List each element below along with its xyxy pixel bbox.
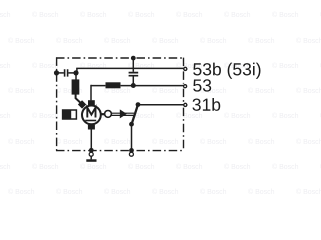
mechanical link double line [111, 113, 134, 115]
wire connector to ground symbol [90, 156, 92, 159]
svg-text:© Bosch: © Bosch [200, 138, 227, 146]
svg-text:© Bosch: © Bosch [8, 188, 35, 196]
node junction on 53 line [131, 83, 136, 88]
terminal 53 [184, 85, 187, 88]
svg-text:© Bosch: © Bosch [248, 87, 275, 95]
wire 53 line from corner to terminal [91, 85, 184, 87]
svg-text:© Bosch: © Bosch [56, 138, 83, 146]
thermal breaker (half-filled box) [63, 110, 77, 119]
svg-text:© Bosch: © Bosch [0, 112, 11, 120]
node switch ground on bottom border [129, 148, 134, 153]
node motor ground on bottom border [89, 148, 94, 153]
connector circle below border (motor ground) [89, 152, 93, 156]
brush bottom [88, 125, 95, 130]
wire motor to ground [90, 130, 92, 153]
svg-text:© Bosch: © Bosch [176, 163, 203, 171]
node on top border for capacitor C2 [131, 56, 136, 61]
svg-text:© Bosch: © Bosch [80, 11, 107, 19]
motor M1 [82, 106, 101, 125]
wire corner down to top brush [90, 85, 92, 101]
svg-text:© Bosch: © Bosch [32, 112, 59, 120]
svg-text:© Bosch: © Bosch [272, 163, 299, 171]
svg-text:© Bosch: © Bosch [296, 138, 321, 146]
svg-text:© Bosch: © Bosch [56, 37, 83, 45]
wire node A jog up to 53b line [76, 68, 78, 73]
svg-text:© Bosch: © Bosch [104, 37, 131, 45]
node case junction on left border [54, 70, 59, 75]
capacitor C1 (series, suppression) [65, 69, 68, 76]
label 31b [192, 98, 220, 111]
svg-text:© Bosch: © Bosch [0, 62, 11, 70]
connector circle below border (switch) [129, 152, 133, 156]
svg-text:© Bosch: © Bosch [32, 11, 59, 19]
actuating arrow [120, 109, 127, 118]
enclosure border top [56, 57, 184, 59]
svg-text:© Bosch: © Bosch [200, 87, 227, 95]
motor M1 underline [85, 120, 96, 122]
enclosure border left [56, 57, 58, 150]
svg-text:© Bosch: © Bosch [32, 163, 59, 171]
wire capacitor C2 to 53 line [132, 77, 134, 86]
node switch top junction [136, 102, 141, 107]
svg-text:© Bosch: © Bosch [272, 11, 299, 19]
svg-text:© Bosch: © Bosch [272, 62, 299, 70]
svg-text:© Bosch: © Bosch [128, 163, 155, 171]
terminal 53b [184, 67, 187, 70]
enclosure border right [183, 58, 185, 151]
svg-text:© Bosch: © Bosch [152, 87, 179, 95]
svg-text:© Bosch: © Bosch [248, 37, 275, 45]
wire 31b line to terminal [138, 104, 184, 106]
resistor R1 (third-brush series resistor) [72, 79, 80, 94]
svg-text:© Bosch: © Bosch [176, 11, 203, 19]
svg-text:© Bosch: © Bosch [248, 138, 275, 146]
wire motor shaft link to cam [101, 113, 105, 115]
capacitor C2 (case to 53 line) [129, 73, 139, 76]
svg-text:© Bosch: © Bosch [296, 87, 321, 95]
svg-text:© Bosch: © Bosch [152, 138, 179, 146]
svg-text:© Bosch: © Bosch [0, 163, 11, 171]
brush third (upper-left) [78, 100, 86, 108]
svg-text:© Bosch: © Bosch [8, 138, 35, 146]
svg-text:© Bosch: © Bosch [224, 163, 251, 171]
wire top border to capacitor C2 [132, 58, 134, 72]
ground [86, 159, 96, 162]
svg-text:© Bosch: © Bosch [200, 188, 227, 196]
svg-text:© Bosch: © Bosch [296, 188, 321, 196]
svg-text:© Bosch: © Bosch [176, 112, 203, 120]
label 53b (53i) [193, 63, 260, 79]
wire from left border to capacitor C1 [57, 72, 64, 74]
node A junction [73, 70, 78, 75]
svg-text:© Bosch: © Bosch [56, 188, 83, 196]
enclosure border bottom [56, 150, 184, 152]
svg-text:© Bosch: © Bosch [152, 37, 179, 45]
svg-text:© Bosch: © Bosch [8, 37, 35, 45]
resistor R2 (in 53 line) [106, 82, 121, 88]
wire switch contact down to case [131, 124, 133, 152]
svg-text:© Bosch: © Bosch [152, 188, 179, 196]
cam follower circle [105, 111, 112, 118]
brush top [88, 100, 95, 105]
svg-text:© Bosch: © Bosch [224, 112, 251, 120]
node switch lower contact [129, 122, 134, 127]
svg-text:© Bosch: © Bosch [224, 11, 251, 19]
svg-text:© Bosch: © Bosch [272, 112, 299, 120]
svg-text:© Bosch: © Bosch [0, 11, 11, 19]
wire 53b line to terminal [76, 67, 184, 69]
svg-text:© Bosch: © Bosch [128, 11, 155, 19]
switch blade [132, 104, 139, 124]
svg-text:© Bosch: © Bosch [248, 188, 275, 196]
terminal 31b [184, 103, 187, 106]
svg-text:© Bosch: © Bosch [80, 163, 107, 171]
watermark pattern [0, 11, 321, 196]
wire node A down to resistor R1 [75, 73, 77, 80]
svg-text:© Bosch: © Bosch [32, 62, 59, 70]
svg-text:© Bosch: © Bosch [8, 87, 35, 95]
svg-text:© Bosch: © Bosch [104, 188, 131, 196]
svg-text:© Bosch: © Bosch [296, 37, 321, 45]
svg-text:© Bosch: © Bosch [104, 138, 131, 146]
svg-text:© Bosch: © Bosch [200, 37, 227, 45]
label 53 [193, 79, 211, 91]
wire from capacitor C1 to node A [68, 72, 76, 74]
wire resistor R1 to third brush [76, 95, 82, 104]
